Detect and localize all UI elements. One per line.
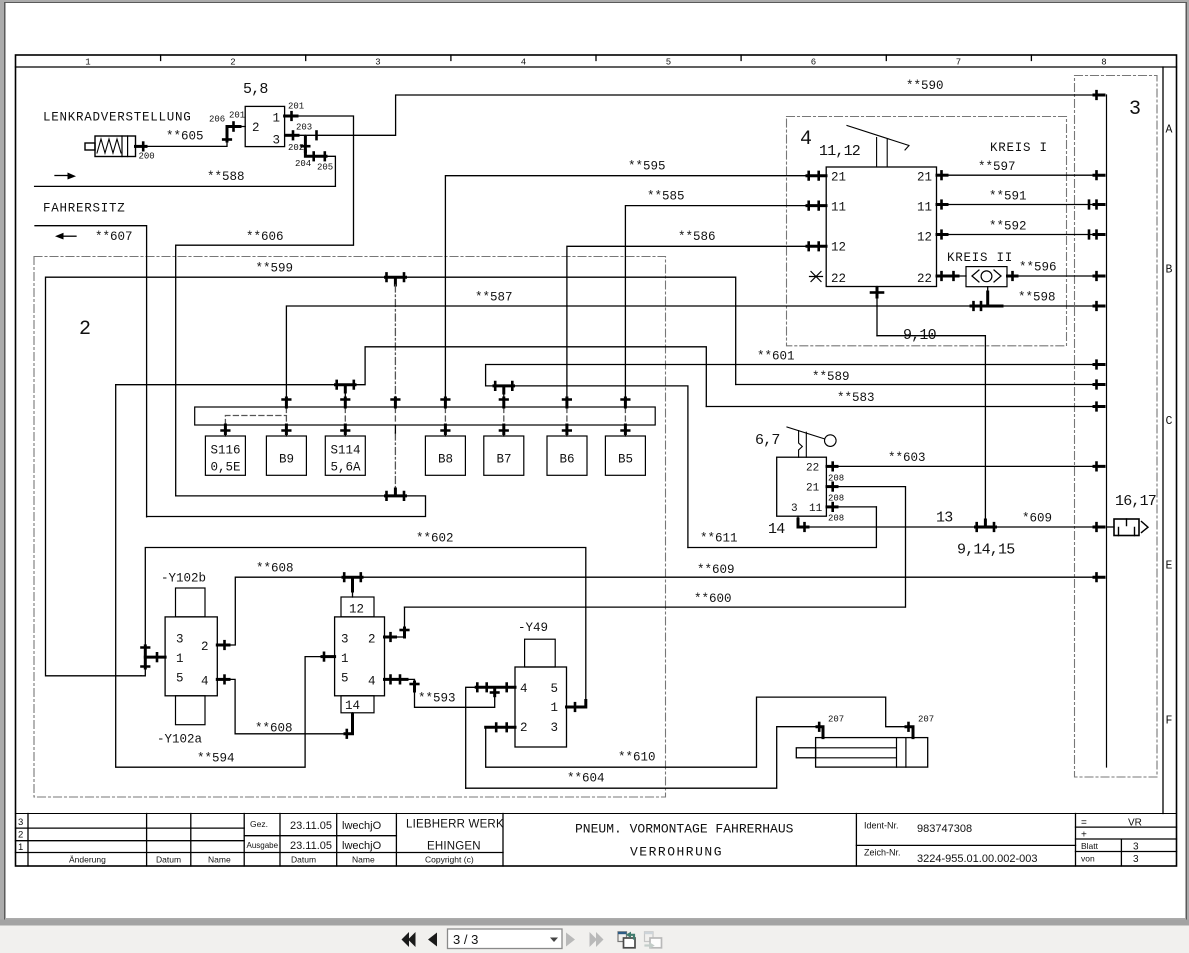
svg-text:+: + <box>1081 830 1087 841</box>
label **603 <box>888 451 926 465</box>
tick 21 <box>827 483 837 491</box>
svg-text:lwechjO: lwechjO <box>342 820 382 832</box>
svg-text:S114: S114 <box>331 444 361 458</box>
svg-text:2: 2 <box>79 318 91 341</box>
label **596 <box>1019 261 1057 275</box>
svg-text:21: 21 <box>917 171 932 185</box>
text FAHRERSITZ <box>43 202 126 216</box>
valve 5,8 pin 2 <box>252 121 260 135</box>
svg-text:5: 5 <box>176 672 184 686</box>
svg-text:EHINGEN: EHINGEN <box>427 841 481 853</box>
svg-text:**591: **591 <box>989 190 1027 204</box>
valve U6,7 lever with knob <box>787 427 836 457</box>
wire **593 <box>415 687 495 707</box>
svg-text:KREIS II: KREIS II <box>947 251 1013 265</box>
cylinder right port elbow 207 <box>906 723 913 738</box>
svg-text:B: B <box>1166 264 1173 277</box>
wire **591 (U4 11 right to bus) <box>937 204 1099 206</box>
label **607 <box>95 230 133 244</box>
label 208 (11) <box>828 514 844 524</box>
label 16,17 <box>1115 493 1156 510</box>
svg-text:3 / 3: 3 / 3 <box>453 932 478 947</box>
svg-text:A: A <box>1166 124 1173 137</box>
label 14 <box>768 521 785 538</box>
text LENKRADVERSTELLUNG <box>43 111 192 125</box>
svg-text:Name: Name <box>208 855 231 865</box>
label 4 <box>800 128 812 151</box>
label **599 <box>256 262 294 276</box>
header Aenderung <box>69 855 106 865</box>
label 5,8 <box>243 81 268 98</box>
tick 22 <box>827 463 837 471</box>
ticks **585 at valve <box>807 202 826 210</box>
svg-text:207: 207 <box>918 715 934 725</box>
wire 21 to **600 drop <box>826 487 905 607</box>
valve Y102 bottom tab <box>176 696 206 725</box>
svg-text:201: 201 <box>229 111 245 121</box>
page combo box <box>448 929 563 949</box>
branch fitting 202 down from port 3 wire <box>302 135 310 151</box>
V2 pin 3 <box>341 633 349 647</box>
svg-text:3: 3 <box>375 58 380 68</box>
svg-text:23.11.05: 23.11.05 <box>290 820 332 832</box>
valve Y49 body <box>515 667 567 747</box>
valve U4 pin 11 left <box>831 201 846 215</box>
svg-text:2: 2 <box>230 58 235 68</box>
dash-dot stand line <box>394 285 396 490</box>
pin 12 <box>349 603 364 617</box>
wire **587 net <box>286 306 1098 397</box>
text KREIS II <box>947 251 1013 265</box>
svg-text:VR: VR <box>1128 818 1142 829</box>
label *609 <box>1022 512 1052 526</box>
B5 text <box>618 453 633 467</box>
label **609 <box>697 563 735 577</box>
Y102 pin 2 <box>201 640 209 654</box>
ruler band bottom line <box>16 66 1177 68</box>
Y102 pin 5 <box>176 672 184 686</box>
Y102 pin 3 <box>176 633 184 647</box>
wire **599 leg into Y102 port1 <box>141 668 145 676</box>
wire **586 (B6 to U4 12) <box>567 246 826 397</box>
svg-text:206: 206 <box>209 115 225 125</box>
wire **588 <box>35 185 336 187</box>
svg-text:**585: **585 <box>647 190 685 204</box>
wire *609 (14 to bus) <box>808 526 1098 528</box>
svg-text:3: 3 <box>273 134 281 148</box>
svg-text:**610: **610 <box>618 751 656 765</box>
name Gez <box>342 820 382 832</box>
port 1 fitting 201 <box>285 112 297 120</box>
svg-text:von: von <box>1081 854 1095 864</box>
svg-text:1: 1 <box>341 652 349 666</box>
label **591 <box>989 190 1027 204</box>
wire **607 (seat line) <box>35 226 147 517</box>
next page button disabled <box>566 933 575 947</box>
shuttle bottom stem to **598 line <box>971 287 1002 310</box>
S116 text <box>211 444 241 475</box>
wire **599 net <box>46 277 736 676</box>
svg-text:LENKRADVERSTELLUNG: LENKRADVERSTELLUNG <box>43 111 192 125</box>
row label B <box>1166 264 1173 277</box>
valve U4 bottom stem fitting <box>871 287 883 336</box>
valve Y102 body <box>165 617 217 696</box>
Y49 pin 1 <box>551 701 559 715</box>
sensor box B5 <box>605 436 645 475</box>
label 2 <box>79 318 91 341</box>
svg-text:Blatt: Blatt <box>1081 841 1099 851</box>
name Ausgabe <box>342 840 382 852</box>
wire **608 upper (Y102 port2 to valve2 port12 and bus **609) <box>229 577 1098 645</box>
title line 2 <box>630 845 723 860</box>
U6,7 pin 11 <box>809 503 823 515</box>
svg-text:**598: **598 <box>1018 291 1056 305</box>
svg-text:1: 1 <box>551 701 559 715</box>
svg-text:3: 3 <box>341 633 349 647</box>
svg-text:11: 11 <box>831 201 846 215</box>
svg-text:KREIS I: KREIS I <box>990 141 1048 155</box>
wire **595 (B8 to U4 21) <box>445 176 826 397</box>
svg-text:Name: Name <box>352 855 375 865</box>
V2 port14 bottom elbow from **608 lower <box>345 713 353 738</box>
right margin inner line <box>1162 67 1164 814</box>
next-view window icon disabled <box>645 932 662 949</box>
row label E <box>1166 560 1173 573</box>
svg-text:5: 5 <box>551 682 559 696</box>
svg-text:14: 14 <box>345 699 360 713</box>
wire **606 net (port1 - down - left - down to box2) <box>176 116 354 496</box>
internal dashed passages <box>225 408 625 425</box>
ruler column numbers 1-8 <box>85 58 1106 68</box>
label **604 <box>567 772 605 786</box>
pin 14 <box>345 699 360 713</box>
svg-text:VERROHRUNG: VERROHRUNG <box>630 845 723 860</box>
valve U6,7 body <box>777 457 827 516</box>
svg-text:**608: **608 <box>256 562 294 576</box>
label **585 <box>647 190 685 204</box>
valve U4 pin 12 right <box>917 231 932 245</box>
svg-text:5,6A: 5,6A <box>331 461 362 475</box>
label **605 <box>166 130 204 144</box>
ruler ticks <box>161 55 1032 61</box>
svg-text:208: 208 <box>828 474 844 484</box>
label **608 lower <box>255 722 293 736</box>
V2 pin 2 <box>368 633 376 647</box>
svg-text:16,17: 16,17 <box>1115 493 1156 510</box>
svg-text:23.11.05: 23.11.05 <box>290 840 332 852</box>
svg-text:202: 202 <box>288 143 304 153</box>
tick 11 <box>827 503 837 511</box>
header Datum 2 <box>291 855 316 865</box>
label -Y102b <box>161 572 206 586</box>
svg-text:**592: **592 <box>989 220 1027 234</box>
svg-text:208: 208 <box>828 494 844 504</box>
combo text 3 / 3 <box>453 932 478 947</box>
wire **611 run <box>688 507 877 548</box>
U6,7 pin 22 <box>806 463 819 475</box>
dash-dot enclosure box 2 <box>34 257 666 798</box>
wire **608 lower (Y102 port4 to V2 port14) <box>229 679 345 733</box>
svg-text:3: 3 <box>1133 854 1139 865</box>
svg-text:F: F <box>1166 715 1173 728</box>
label **611 <box>700 532 738 546</box>
svg-text:3: 3 <box>551 721 559 735</box>
elbow fitting 206/201 to valve 5,8 port 2 <box>223 123 245 142</box>
sensor box S116 <box>205 436 245 475</box>
sensor box B9 <box>266 436 306 475</box>
Y49 pin 3 <box>551 721 559 735</box>
label Blatt <box>1081 841 1099 851</box>
svg-text:B9: B9 <box>279 453 294 467</box>
label 203 <box>296 123 312 133</box>
svg-text:**603: **603 <box>888 451 926 465</box>
label Zeich-Nr. <box>864 848 901 858</box>
svg-text:**611: **611 <box>700 532 738 546</box>
tee fitting above S114 <box>336 381 356 392</box>
svg-text:**594: **594 <box>197 752 235 766</box>
label 207 left <box>828 715 844 725</box>
svg-text:1: 1 <box>176 652 184 666</box>
wire **604 branch up to port4 bar <box>466 687 477 788</box>
dash-dot enclosure box 4 (KREIS) <box>787 117 1067 346</box>
valve U4 pin 21 right <box>917 171 932 185</box>
label **588 <box>207 170 245 184</box>
label **597 <box>978 160 1016 174</box>
svg-text:2: 2 <box>201 640 209 654</box>
Y102 pin 4 <box>201 675 209 689</box>
svg-text:22: 22 <box>806 463 819 475</box>
valve 5,8 pin 1 <box>273 112 281 126</box>
label Ausgabe <box>247 841 279 850</box>
label + <box>1081 830 1087 841</box>
svg-text:**606: **606 <box>246 230 284 244</box>
svg-text:4: 4 <box>201 675 209 689</box>
sensor box S114 <box>325 436 365 475</box>
svg-text:B5: B5 <box>618 453 633 467</box>
svg-text:4: 4 <box>520 682 528 696</box>
label **602 <box>416 532 454 546</box>
svg-text:11: 11 <box>809 503 823 515</box>
cylinder rod end <box>796 748 815 758</box>
svg-text:7: 7 <box>956 58 961 68</box>
svg-text:12: 12 <box>349 603 364 617</box>
V2 port4 fitting and elbow <box>385 676 419 691</box>
wire **600 (V2 port2 to U6,7 port21) <box>405 606 905 608</box>
svg-text:**604: **604 <box>567 772 605 786</box>
wire **585 (B5 to U4 11) <box>625 206 826 397</box>
svg-text:**583: **583 <box>837 391 875 405</box>
date Ausgabe <box>290 840 332 852</box>
svg-text:-Y102a: -Y102a <box>157 733 203 747</box>
V2 pin 5 <box>341 672 349 686</box>
label -Y49 <box>518 621 548 635</box>
tee fitting 13 <box>976 520 996 531</box>
svg-text:1: 1 <box>18 842 23 853</box>
svg-text:**599: **599 <box>256 262 294 276</box>
label 207 right <box>918 715 934 725</box>
title line 1 <box>575 822 794 837</box>
shuttle valve KREIS II <box>966 267 1007 287</box>
previous-view window icon <box>618 932 635 948</box>
svg-text:205: 205 <box>317 163 333 173</box>
label Gez. <box>250 819 268 829</box>
B8 text <box>438 453 453 467</box>
label **598 <box>1018 291 1056 305</box>
valve U4 lever actuator <box>847 126 909 168</box>
ticks **595 at valve <box>807 172 826 180</box>
sensor box B7 <box>484 436 524 475</box>
svg-text:200: 200 <box>139 152 155 162</box>
B7 column stem <box>503 393 505 397</box>
row label F <box>1166 715 1173 728</box>
svg-text:11: 11 <box>917 201 932 215</box>
label 200 <box>139 152 155 162</box>
svg-text:203: 203 <box>296 123 312 133</box>
row label C <box>1166 415 1173 428</box>
svg-text:lwechjO: lwechjO <box>342 840 382 852</box>
label **610 <box>618 751 656 765</box>
svg-text:**600: **600 <box>694 592 732 606</box>
svg-text:201: 201 <box>288 102 304 112</box>
valve U4 pin 11 right <box>917 201 932 215</box>
bus connector ticks <box>1089 91 1104 581</box>
V2 pin 1 <box>341 652 349 666</box>
svg-text:**593: **593 <box>418 692 456 706</box>
svg-text:13: 13 <box>936 510 953 527</box>
svg-text:PNEUM. VORMONTAGE FAHRERHAUS: PNEUM. VORMONTAGE FAHRERHAUS <box>575 822 794 837</box>
svg-text:208: 208 <box>828 514 844 524</box>
right distribution bus <box>1106 95 1108 767</box>
B9 text <box>279 453 294 467</box>
svg-text:=: = <box>1081 818 1087 829</box>
previous page button <box>428 933 437 947</box>
Y49 port2 bar <box>486 724 515 732</box>
text KREIS I <box>990 141 1048 155</box>
Y49 pin 2 <box>520 721 528 735</box>
svg-text:-Y49: -Y49 <box>518 621 548 635</box>
revision row numbers <box>18 817 23 853</box>
label 205 <box>317 163 333 173</box>
cylinder 200 (steering actuator) <box>85 136 136 157</box>
combo dropdown arrow <box>550 938 558 943</box>
elbow 204/205 <box>305 151 335 186</box>
company EHINGEN <box>427 841 481 853</box>
title block grid lines <box>16 814 1177 867</box>
Y49 pin 4 <box>520 682 528 696</box>
svg-text:14: 14 <box>768 521 785 538</box>
wire **583 to bus <box>706 406 1098 408</box>
svg-text:**609: **609 <box>697 563 735 577</box>
svg-text:S116: S116 <box>211 444 241 458</box>
svg-text:2: 2 <box>252 121 260 135</box>
svg-text:6,7: 6,7 <box>755 432 780 449</box>
von number <box>1133 854 1139 865</box>
svg-text:983747308: 983747308 <box>917 823 972 835</box>
svg-text:22: 22 <box>831 272 846 286</box>
svg-text:**595: **595 <box>628 160 666 174</box>
valve 5,8 pin 3 <box>273 134 281 148</box>
V2 pin 4 <box>368 675 376 689</box>
label 3 <box>1129 98 1141 121</box>
label 201 (left) <box>229 111 245 121</box>
U6,7 pin 21 <box>806 483 820 495</box>
label = <box>1081 818 1087 829</box>
cylinder left port elbow 207 <box>817 723 823 738</box>
svg-text:204: 204 <box>295 159 311 169</box>
arrow left **607 <box>55 233 76 240</box>
svg-text:12: 12 <box>831 241 846 255</box>
svg-text:4: 4 <box>800 128 812 151</box>
svg-text:Gez.: Gez. <box>250 819 268 829</box>
svg-text:3: 3 <box>1129 98 1141 121</box>
svg-text:**590: **590 <box>906 79 944 93</box>
port 14 elbow <box>798 516 808 531</box>
drawing number <box>917 853 1038 865</box>
wire **596 (shuttle to bus) <box>1007 275 1098 277</box>
wire **601 net (bus to B7) <box>486 365 1098 548</box>
svg-text:**607: **607 <box>95 230 133 244</box>
tee fitting above B7 <box>494 382 514 393</box>
svg-text:-Y102b: -Y102b <box>161 572 206 586</box>
svg-text:Zeich-Nr.: Zeich-Nr. <box>864 848 901 858</box>
coupling 16,17 <box>1107 519 1149 536</box>
Y49 port1 elbow <box>567 701 586 711</box>
ticks **586 at valve <box>807 243 826 251</box>
label **590 <box>906 79 944 93</box>
B6 text <box>560 453 575 467</box>
label **593 <box>418 692 456 706</box>
svg-text:**605: **605 <box>166 130 204 144</box>
port fitting 200 <box>136 143 147 151</box>
svg-text:0,5E: 0,5E <box>211 461 241 475</box>
wire 11 to **611 <box>826 506 876 508</box>
tick **592 <box>937 231 947 239</box>
wire **604 <box>466 727 817 789</box>
label 202 <box>288 143 304 153</box>
svg-text:**586: **586 <box>678 230 716 244</box>
label -Y102a <box>157 733 203 747</box>
valve U4 pin 21 left <box>831 171 846 185</box>
Y102 port4 fitting <box>217 676 229 684</box>
label 9,10 <box>903 327 937 344</box>
wire **605 <box>146 140 227 146</box>
tick **591 <box>937 201 947 209</box>
svg-text:B6: B6 <box>560 453 575 467</box>
valve V2 bottom tab 14 <box>341 696 374 713</box>
wire **590 net from port 3 <box>285 95 1098 135</box>
label Copyright <box>425 855 474 865</box>
label 9,14,15 <box>957 542 1015 559</box>
wire **589 to bus <box>736 384 1098 386</box>
S114 text <box>331 444 362 475</box>
svg-text:**601: **601 <box>757 350 795 364</box>
svg-text:**588: **588 <box>207 170 245 184</box>
blocked port marker at pin 22 left <box>810 272 823 282</box>
Y49 pin 5 <box>551 682 559 696</box>
svg-text:Datum: Datum <box>291 855 316 865</box>
svg-text:8: 8 <box>1101 58 1106 68</box>
svg-text:21: 21 <box>831 171 846 185</box>
label **606 <box>246 230 284 244</box>
svg-text:3224-955.01.00.002-003: 3224-955.01.00.002-003 <box>917 853 1038 865</box>
label **586 <box>678 230 716 244</box>
tick **596 <box>1008 272 1018 280</box>
title block top line <box>16 813 1177 815</box>
valve U5,8 body <box>245 106 284 146</box>
svg-text:Änderung: Änderung <box>69 855 106 865</box>
wire **592 (U4 12 right to bus) <box>937 234 1099 236</box>
first page button <box>402 932 416 947</box>
